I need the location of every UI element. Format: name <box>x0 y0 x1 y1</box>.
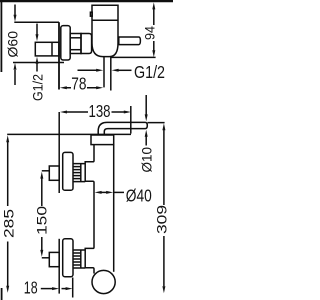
arm wall flange block <box>91 135 114 145</box>
handshower body left edge with union throats <box>85 145 94 274</box>
dim 285 line <box>7 142 9 286</box>
handshower body right edge <box>113 145 115 272</box>
svg-text:309: 309 <box>153 205 169 234</box>
G1/2 outlet arrow left-pointing <box>118 69 132 71</box>
border left bottom stub <box>1 288 3 300</box>
dim 309 ext top <box>148 122 165 124</box>
dim 18 ext right <box>72 278 74 298</box>
dim Ø10 arrow up + leader <box>145 137 147 146</box>
G1/2 arrow up (wall thread) <box>36 64 38 72</box>
dim 285 ext top <box>7 133 131 135</box>
svg-text:285: 285 <box>0 209 16 238</box>
dim 94 ext bottom <box>112 56 156 58</box>
dim Ø60 arrow bottom <box>14 70 16 85</box>
threaded nipple (side view) <box>70 34 81 54</box>
svg-text:18: 18 <box>24 278 38 298</box>
tube cap line <box>51 42 53 56</box>
escutcheon plate (side view) <box>61 26 70 60</box>
dim 78 line <box>67 87 97 89</box>
cartridge body (side view) <box>92 5 118 56</box>
svg-text:78: 78 <box>71 73 86 93</box>
upper thread ribs <box>73 167 81 179</box>
dim Ø40 arrows <box>101 191 107 193</box>
dim 138 line right <box>112 111 125 113</box>
svg-text:Ø60: Ø60 <box>4 31 20 58</box>
dim 138 line left <box>67 111 89 113</box>
wall line (front view upper) <box>58 112 60 193</box>
dim Ø60 ext top <box>14 21 59 23</box>
shower arm pipe (bent) <box>98 122 147 134</box>
body internal line <box>92 19 118 21</box>
dim 94 line <box>153 9 155 52</box>
G1/2 outlet arrow right-pointing <box>78 69 98 71</box>
handle lever (side view) <box>119 37 141 45</box>
handshower head circle <box>92 270 115 293</box>
dim Ø60 ext bottom <box>13 62 64 64</box>
svg-text:G1/2: G1/2 <box>30 74 46 101</box>
lower union leader <box>42 257 50 259</box>
dim Ø40 leader tail <box>114 191 124 193</box>
svg-text:Ø40: Ø40 <box>126 186 152 206</box>
dim 18 line right <box>62 288 67 290</box>
wall supply tube (side view) <box>35 42 59 56</box>
dim Ø60 arrow top <box>14 5 16 16</box>
dim 138 ext right <box>130 106 132 134</box>
thread rib <box>70 49 81 51</box>
dim 18 line left <box>41 288 53 290</box>
wall line (side view) <box>58 22 60 89</box>
border left <box>0 0 2 72</box>
outlet pipe right edge <box>110 57 112 91</box>
thread rib <box>70 37 81 39</box>
dim 150 line <box>41 179 43 251</box>
svg-text:G1/2: G1/2 <box>134 62 165 82</box>
outlet pipe left edge <box>103 57 105 88</box>
svg-text:150: 150 <box>34 206 50 235</box>
upper union leader <box>42 170 50 172</box>
union nut (side view) <box>81 34 92 54</box>
wall/ext line (front view lower) <box>58 239 60 294</box>
svg-text:138: 138 <box>89 101 111 121</box>
lower union threaded pipe <box>73 250 85 268</box>
border top <box>0 0 173 2</box>
upper thread divider <box>80 164 82 182</box>
body notch <box>90 12 92 16</box>
upper union escutcheon plate <box>63 152 73 190</box>
upper union nut <box>49 166 59 180</box>
dim Ø10 arrow down <box>145 95 147 115</box>
dim 309 line <box>163 130 165 287</box>
svg-text:94: 94 <box>142 26 158 40</box>
G1/2 arrow down (wall thread) <box>36 24 38 35</box>
lower thread ribs <box>73 253 81 265</box>
lower union nut <box>49 252 59 266</box>
upper union threaded pipe <box>73 164 85 182</box>
lower union escutcheon plate <box>63 239 73 277</box>
svg-text:Ø10: Ø10 <box>138 147 154 173</box>
lower thread divider <box>80 250 82 268</box>
